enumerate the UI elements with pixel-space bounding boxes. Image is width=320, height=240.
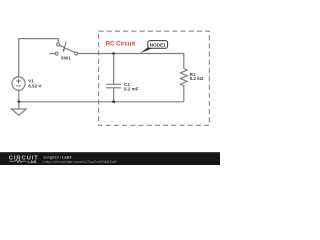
wire SW1 pole to resistor corner — [78, 54, 184, 69]
SW1 arrowhead — [63, 49, 65, 52]
C1 bottom lead — [113, 88, 115, 102]
resistor R1 — [181, 69, 188, 102]
svg-text:NODE1: NODE1 — [150, 43, 167, 48]
C1 top lead — [113, 54, 115, 85]
R1 zigzag — [181, 69, 188, 86]
callout NODE1 tail — [140, 47, 153, 53]
svg-text:5.2 mF: 5.2 mF — [124, 87, 139, 92]
logo waveform LAB — [9, 160, 26, 163]
svg-text:http://circuitlab.com/c/7sa7m9: http://circuitlab.com/c/7sa7m93kb3u2 — [43, 159, 116, 164]
svg-text:5.2 kΩ: 5.2 kΩ — [190, 76, 204, 81]
V1 minus sign — [16, 85, 21, 87]
capacitor C1 — [106, 54, 121, 102]
svg-text:RC Circuit: RC Circuit — [106, 41, 135, 47]
R1 bottom lead — [183, 86, 185, 102]
SW1 open throw terminal — [55, 52, 58, 55]
C1 bottom plate — [106, 87, 121, 89]
SW1 pole terminal — [75, 52, 78, 55]
watermark bar — [0, 152, 220, 165]
V1 body — [12, 77, 25, 90]
node junction dot at ground — [17, 100, 20, 103]
node junction dot at capacitor bottom — [112, 100, 115, 103]
SW1 actuator arrow — [64, 42, 66, 50]
svg-text:SW1: SW1 — [61, 56, 71, 61]
switch SW1 — [49, 42, 77, 55]
V1 plus sign — [16, 80, 21, 82]
V1 bottom lead — [18, 90, 20, 102]
wire top horizontal (V1 to SW1) — [19, 39, 58, 77]
SW1 open throw stub — [49, 53, 55, 55]
SW1 throw A terminal — [57, 43, 60, 46]
svg-text:6.52 V: 6.52 V — [28, 84, 42, 89]
ground — [11, 102, 26, 116]
svg-text:LAB: LAB — [28, 159, 37, 164]
wire bottom horizontal — [19, 101, 184, 103]
C1 top plate — [106, 83, 121, 85]
SW1 blade — [60, 45, 75, 52]
callout NODE1 box — [148, 41, 168, 49]
voltage source V1 — [12, 77, 25, 102]
node junction dot at capacitor top — [112, 52, 115, 55]
enclosure RC Circuit dashed box — [99, 31, 210, 125]
